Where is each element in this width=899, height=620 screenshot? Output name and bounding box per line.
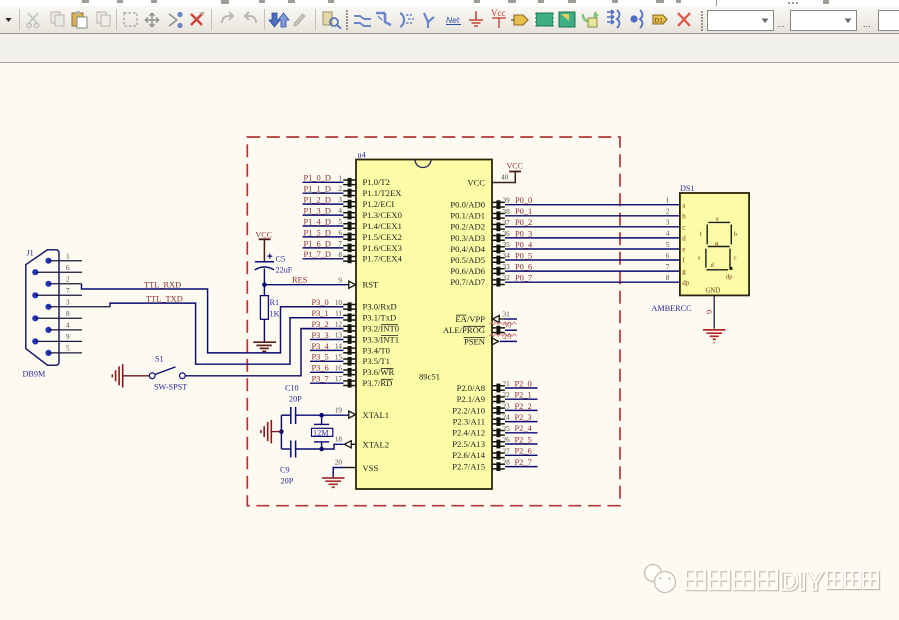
svg-text:P3_4: P3_4 bbox=[312, 342, 330, 351]
svg-text:P1_6_D: P1_6_D bbox=[304, 239, 331, 248]
overline PROG bbox=[463, 325, 485, 327]
svg-text:P1.2/ECI: P1.2/ECI bbox=[363, 199, 395, 209]
wire TTL_RXD from J1 pin2 to U4 P3.0 bbox=[82, 284, 344, 353]
wire net P3_1 stub bbox=[290, 317, 344, 319]
svg-text:2: 2 bbox=[66, 276, 70, 284]
no-ERC squiggle pin30 bbox=[489, 322, 517, 325]
wire C9 left lead bbox=[281, 448, 290, 450]
wire net P3_3 stub bbox=[310, 339, 344, 341]
svg-text:P1.5/CEX2: P1.5/CEX2 bbox=[363, 232, 402, 242]
U4 pin 12 bbox=[343, 324, 355, 333]
svg-text:10: 10 bbox=[335, 299, 343, 307]
wire net P3_5 stub bbox=[310, 360, 344, 362]
svg-text:9: 9 bbox=[338, 277, 342, 285]
svg-text:DS1: DS1 bbox=[680, 184, 695, 193]
svg-text:e: e bbox=[682, 246, 685, 254]
overline EA bbox=[456, 314, 467, 316]
svg-text:b: b bbox=[682, 212, 686, 220]
svg-text:P2.4/A12: P2.4/A12 bbox=[452, 428, 485, 438]
svg-text:3: 3 bbox=[338, 196, 342, 204]
svg-text:37: 37 bbox=[503, 219, 511, 227]
wire net P0_1 to DS1 bbox=[505, 215, 680, 217]
U4 pin 1 bbox=[343, 178, 355, 187]
wire to XTAL1 pin bbox=[322, 414, 349, 416]
svg-text:P0_3: P0_3 bbox=[515, 229, 532, 238]
svg-text:40: 40 bbox=[501, 174, 509, 182]
wire net P0_0 to DS1 bbox=[505, 204, 680, 206]
svg-text:25: 25 bbox=[503, 425, 511, 433]
wire to XTAL2 pin bbox=[322, 444, 344, 449]
watermark logo bbox=[645, 565, 676, 593]
svg-text:P2.1/A9: P2.1/A9 bbox=[457, 394, 485, 404]
svg-text:u4: u4 bbox=[358, 151, 366, 160]
svg-text:9: 9 bbox=[66, 333, 70, 341]
svg-text:P2_0: P2_0 bbox=[515, 379, 532, 388]
wire net P2_2 stub bbox=[505, 409, 538, 411]
svg-text:22uF: 22uF bbox=[276, 266, 293, 275]
display DS1 body bbox=[680, 193, 749, 295]
power ground at switch S1 bbox=[112, 364, 122, 387]
svg-text:9: 9 bbox=[705, 310, 714, 314]
svg-text:19: 19 bbox=[335, 407, 343, 415]
U4 pin 19 XTAL1 bbox=[349, 411, 356, 418]
wire ground to S1 bbox=[123, 375, 150, 377]
svg-text:5: 5 bbox=[338, 218, 342, 226]
resistor R1 1K bbox=[263, 285, 265, 296]
svg-text:P3.1/TxD: P3.1/TxD bbox=[363, 313, 397, 323]
U4 pin 28 bbox=[493, 462, 505, 471]
svg-text:16: 16 bbox=[335, 364, 343, 372]
svg-text:13: 13 bbox=[335, 332, 343, 340]
wire net P3_4 stub bbox=[310, 349, 344, 351]
svg-text:DB9M: DB9M bbox=[23, 370, 46, 379]
wire net P2_4 stub bbox=[505, 432, 538, 434]
junction left cap node bbox=[279, 429, 284, 434]
wire R1 to ground bbox=[263, 319, 265, 342]
svg-text:P1.0/T2: P1.0/T2 bbox=[363, 177, 390, 187]
wire net P0_5 to DS1 bbox=[505, 259, 680, 261]
switch S1 SW-SPST bbox=[149, 367, 185, 379]
svg-text:R1: R1 bbox=[270, 298, 280, 307]
wire net P0_6 to DS1 bbox=[505, 270, 680, 272]
svg-text:P3_0: P3_0 bbox=[312, 298, 329, 307]
wire TTL_TXD from J1 pin3 to U4 P3.1 bbox=[110, 303, 344, 364]
svg-text:P2.7/A15: P2.7/A15 bbox=[452, 462, 485, 472]
svg-text:P3.0/RxD: P3.0/RxD bbox=[363, 302, 397, 312]
svg-text:P2_3: P2_3 bbox=[515, 413, 532, 422]
svg-text:5: 5 bbox=[666, 241, 670, 249]
power ground at crystal bbox=[261, 420, 271, 443]
svg-text:1K: 1K bbox=[270, 310, 280, 319]
svg-text:e: e bbox=[698, 255, 701, 262]
svg-text:8: 8 bbox=[666, 274, 670, 282]
svg-text:P2_5: P2_5 bbox=[515, 435, 532, 444]
svg-text:P2_7: P2_7 bbox=[515, 458, 532, 467]
svg-text:VCC: VCC bbox=[256, 231, 272, 240]
svg-text:2: 2 bbox=[338, 185, 342, 193]
svg-text:5: 5 bbox=[66, 345, 70, 353]
wire net P3_2 stub bbox=[301, 328, 344, 330]
U4 pin 25 bbox=[493, 428, 505, 437]
svg-text:P1.3/CEX0: P1.3/CEX0 bbox=[363, 210, 402, 220]
wire net P2_0 stub bbox=[505, 387, 538, 389]
U4 pin 21 bbox=[493, 384, 505, 393]
DS1 seven-segment digit bbox=[706, 222, 731, 269]
svg-text:P0.6/AD6: P0.6/AD6 bbox=[450, 266, 485, 276]
svg-text:c: c bbox=[734, 255, 737, 262]
wire net P0_3 to DS1 bbox=[505, 237, 680, 239]
svg-text:a: a bbox=[716, 215, 719, 222]
svg-text:23: 23 bbox=[503, 402, 511, 410]
svg-text:P3_6: P3_6 bbox=[312, 364, 329, 373]
no-ERC squiggle pin29 bbox=[489, 334, 517, 337]
svg-text:C9: C9 bbox=[280, 466, 290, 475]
U4 pin 29 PSEN bbox=[492, 338, 499, 345]
U4 pin 13 bbox=[343, 335, 355, 344]
U4 pin 27 bbox=[493, 451, 505, 460]
svg-text:20: 20 bbox=[335, 459, 343, 467]
svg-text:34: 34 bbox=[503, 252, 511, 260]
wire pin40 to VCC symbol bbox=[492, 172, 515, 183]
wire net P1_7_D stub bbox=[303, 258, 344, 260]
U4 pin 16 bbox=[343, 368, 355, 377]
svg-text:1: 1 bbox=[338, 174, 342, 182]
svg-text:P3_1: P3_1 bbox=[312, 309, 329, 318]
svg-text:P2_2: P2_2 bbox=[515, 402, 532, 411]
svg-text:SW-SPST: SW-SPST bbox=[154, 383, 187, 392]
J1 pin 9 bbox=[32, 338, 38, 344]
wire net P2_6 stub bbox=[505, 454, 538, 456]
svg-text:VCC: VCC bbox=[467, 177, 485, 187]
wire VSS to ground bbox=[333, 468, 343, 479]
svg-text:TTL_RXD: TTL_RXD bbox=[144, 280, 181, 289]
svg-text:P0_0: P0_0 bbox=[515, 196, 532, 205]
svg-text:P1_3_D: P1_3_D bbox=[304, 207, 331, 216]
svg-text:P0_1: P0_1 bbox=[515, 207, 532, 216]
svg-text:RST: RST bbox=[363, 280, 380, 290]
wire net P3_6 stub bbox=[310, 371, 344, 373]
wire joining C10 and C9 left plates bbox=[280, 415, 282, 449]
wire net P2_5 stub bbox=[505, 443, 538, 445]
svg-text:4: 4 bbox=[666, 230, 670, 238]
U4 pin 34 bbox=[493, 256, 505, 265]
svg-text:d: d bbox=[682, 235, 686, 243]
earth ground below R1 bbox=[253, 342, 276, 351]
U4 pin 14 bbox=[343, 346, 355, 355]
earth ground below DS1 bbox=[703, 330, 725, 343]
VCC power symbol at pin 40 bbox=[509, 171, 521, 173]
svg-text:dp: dp bbox=[682, 279, 690, 287]
svg-text:P0.1/AD1: P0.1/AD1 bbox=[450, 211, 485, 221]
U4 pin 30 ALE/PROG bbox=[493, 326, 505, 335]
svg-text:4: 4 bbox=[66, 322, 70, 330]
svg-text:P0.7/AD7: P0.7/AD7 bbox=[450, 277, 485, 287]
svg-text:C10: C10 bbox=[285, 384, 299, 393]
svg-text:P2.0/A8: P2.0/A8 bbox=[457, 383, 485, 393]
U4 pin 22 bbox=[493, 395, 505, 404]
svg-text:8: 8 bbox=[338, 251, 342, 259]
svg-text:21: 21 bbox=[503, 380, 511, 388]
overline WR bbox=[381, 367, 394, 369]
svg-text:P1_5_D: P1_5_D bbox=[304, 228, 331, 237]
svg-text:P1_1_D: P1_1_D bbox=[304, 185, 331, 194]
svg-text:RES: RES bbox=[292, 276, 308, 285]
svg-text:P0_4: P0_4 bbox=[515, 240, 533, 249]
svg-text:dp: dp bbox=[726, 273, 733, 280]
U4 pin 15 bbox=[343, 357, 355, 366]
svg-text:14: 14 bbox=[335, 342, 343, 350]
svg-text:3: 3 bbox=[666, 219, 670, 227]
svg-text:P1_7_D: P1_7_D bbox=[304, 250, 331, 259]
svg-text:28: 28 bbox=[503, 459, 511, 467]
svg-text:12: 12 bbox=[335, 321, 343, 329]
junction XTAL2 node bbox=[319, 447, 324, 452]
svg-text:7: 7 bbox=[338, 240, 342, 248]
svg-text:18: 18 bbox=[335, 435, 343, 443]
svg-text:36: 36 bbox=[503, 230, 511, 238]
wire net P1_1_D stub bbox=[303, 192, 344, 194]
svg-text:P0.3/AD3: P0.3/AD3 bbox=[450, 233, 485, 243]
capacitor C9 20P bbox=[290, 441, 292, 458]
svg-text:c: c bbox=[682, 223, 685, 231]
overline RD bbox=[381, 378, 393, 380]
svg-text:P3.5/T1: P3.5/T1 bbox=[363, 356, 390, 366]
U4 pin 5 bbox=[343, 222, 355, 231]
svg-text:AMBERCC: AMBERCC bbox=[652, 304, 693, 313]
svg-text:P1.4/CEX1: P1.4/CEX1 bbox=[363, 221, 402, 231]
J1 pin 3 bbox=[45, 304, 51, 310]
svg-text:7: 7 bbox=[666, 263, 670, 271]
svg-text:4: 4 bbox=[338, 207, 342, 215]
svg-text:39: 39 bbox=[503, 197, 511, 205]
svg-text:P0_2: P0_2 bbox=[515, 218, 532, 227]
svg-text:XTAL2: XTAL2 bbox=[363, 440, 390, 450]
svg-text:P1_2_D: P1_2_D bbox=[304, 196, 331, 205]
svg-text:P3.4/T0: P3.4/T0 bbox=[363, 345, 390, 355]
svg-text:P3_5: P3_5 bbox=[312, 353, 329, 362]
svg-text:P0_5: P0_5 bbox=[515, 251, 532, 260]
wire net P0_7 to DS1 bbox=[505, 281, 680, 283]
U4 pin 33 bbox=[493, 267, 505, 276]
svg-text:8: 8 bbox=[66, 310, 70, 318]
svg-text:S1: S1 bbox=[155, 355, 164, 364]
J1 pin 1 bbox=[45, 258, 51, 264]
svg-text:TTL_TXD: TTL_TXD bbox=[146, 294, 183, 303]
DS1 pin 9 wire to ground bbox=[713, 295, 715, 328]
U4 pin 37 bbox=[493, 222, 505, 231]
earth ground below VSS bbox=[322, 478, 345, 487]
watermark text 电子知识DIY工作室 (embossed) bbox=[685, 565, 879, 597]
wire crystal top stub bbox=[321, 415, 323, 424]
svg-text:22: 22 bbox=[503, 391, 511, 399]
svg-text:P2_4: P2_4 bbox=[515, 424, 533, 433]
svg-text:P2.5/A13: P2.5/A13 bbox=[452, 439, 485, 449]
wire net P0_4 to DS1 bbox=[505, 248, 680, 250]
svg-text:35: 35 bbox=[503, 241, 511, 249]
U4 pin 10 bbox=[343, 302, 355, 311]
svg-text:1: 1 bbox=[66, 253, 70, 261]
svg-text:3: 3 bbox=[66, 299, 70, 307]
svg-text:P1.6/CEX3: P1.6/CEX3 bbox=[363, 243, 402, 253]
svg-text:VCC: VCC bbox=[507, 162, 523, 171]
wire net P1_2_D stub bbox=[303, 203, 344, 205]
U4 pin 4 bbox=[343, 211, 355, 220]
U4 pin 26 bbox=[493, 440, 505, 449]
U4 pin 6 bbox=[343, 233, 355, 242]
wire crystal ground to caps node bbox=[271, 431, 281, 433]
U4 pin 20 VSS bbox=[344, 467, 357, 469]
wire net P1_0_D stub bbox=[303, 181, 344, 183]
svg-text:32: 32 bbox=[503, 274, 511, 282]
wire net P2_1 stub bbox=[505, 398, 538, 400]
wire pin31 stub bbox=[504, 318, 517, 320]
svg-text:g: g bbox=[682, 268, 686, 276]
svg-text:P1_4_D: P1_4_D bbox=[304, 217, 331, 226]
J1 pin 2 bbox=[45, 281, 51, 287]
segment letters bbox=[698, 215, 738, 280]
selection frame dashed red rectangle bbox=[247, 137, 620, 506]
svg-text:P2.2/A10: P2.2/A10 bbox=[452, 405, 485, 415]
wire net P3_0 stub bbox=[281, 306, 344, 308]
J1 pin 5 bbox=[45, 350, 51, 356]
U4 pin 24 bbox=[493, 417, 505, 426]
wire net P1_6_D stub bbox=[303, 247, 344, 249]
J1 pin 4 bbox=[45, 327, 51, 333]
svg-text:31: 31 bbox=[503, 311, 511, 319]
svg-text:P0_7: P0_7 bbox=[515, 274, 532, 283]
svg-text:89c51: 89c51 bbox=[419, 372, 440, 382]
svg-text:6: 6 bbox=[338, 229, 342, 237]
wire net P2_3 stub bbox=[505, 421, 538, 423]
junction XTAL1 node bbox=[319, 413, 324, 418]
svg-text:P0.5/AD5: P0.5/AD5 bbox=[450, 255, 485, 265]
svg-text:15: 15 bbox=[335, 353, 343, 361]
svg-text:2: 2 bbox=[666, 208, 670, 216]
J1 pin 7 bbox=[32, 292, 38, 298]
wire pin29 stub bbox=[500, 340, 517, 342]
svg-text:P0.4/AD4: P0.4/AD4 bbox=[450, 244, 485, 254]
wire net P2_7 stub bbox=[505, 466, 538, 468]
U4 pin 36 bbox=[493, 234, 505, 243]
svg-text:P0.0/AD0: P0.0/AD0 bbox=[450, 200, 485, 210]
svg-text:27: 27 bbox=[503, 447, 511, 455]
U4 pin 2 bbox=[343, 189, 355, 198]
svg-text:VSS: VSS bbox=[363, 463, 379, 473]
capacitor C10 20P bbox=[290, 407, 292, 424]
U4 pin 23 bbox=[493, 406, 505, 415]
U4 pin 35 bbox=[493, 245, 505, 254]
wire RES to U4 RST bbox=[264, 284, 348, 286]
overline PSEN bbox=[464, 337, 486, 339]
svg-text:P2.3/A11: P2.3/A11 bbox=[453, 417, 485, 427]
overline INT0 bbox=[381, 324, 398, 326]
svg-text:P1_0_D: P1_0_D bbox=[304, 174, 331, 183]
overline INT1 bbox=[381, 335, 398, 337]
wire net P3_7 stub bbox=[310, 382, 344, 384]
wire C9 right lead to XTAL2 node bbox=[296, 448, 322, 450]
svg-text:26: 26 bbox=[503, 436, 511, 444]
svg-text:P2.6/A14: P2.6/A14 bbox=[452, 450, 485, 460]
J1 pin 8 bbox=[32, 315, 38, 321]
svg-text:P1.7/CEX4: P1.7/CEX4 bbox=[363, 254, 403, 264]
wire net P1_3_D stub bbox=[303, 214, 344, 216]
svg-text:33: 33 bbox=[503, 263, 511, 271]
wire S1 to U4 P3.2 bbox=[185, 329, 343, 376]
wire C10 left lead bbox=[281, 414, 290, 416]
J1 pin 6 bbox=[32, 269, 38, 275]
U4 pin 7 bbox=[343, 244, 355, 253]
svg-text:P2_1: P2_1 bbox=[515, 391, 532, 400]
mcu U4 89c51 body bbox=[356, 160, 492, 490]
svg-text:1: 1 bbox=[666, 197, 670, 205]
svg-text:C5: C5 bbox=[276, 255, 286, 264]
svg-text:DIY: DIY bbox=[779, 565, 822, 595]
svg-text:6: 6 bbox=[666, 252, 670, 260]
U4 pin 39 bbox=[493, 200, 505, 209]
svg-text:P2_6: P2_6 bbox=[515, 447, 532, 456]
connector J1 DB9M outline bbox=[26, 250, 59, 365]
wire pin30 stub bbox=[505, 329, 517, 331]
svg-text:29: 29 bbox=[503, 332, 511, 341]
wire net P0_2 to DS1 bbox=[505, 226, 680, 228]
svg-text:XTAL1: XTAL1 bbox=[363, 410, 390, 420]
svg-text:P3_3: P3_3 bbox=[312, 331, 329, 340]
U4 pin 31 EA/VPP bbox=[493, 315, 505, 322]
VCC power symbol left bbox=[259, 239, 271, 261]
svg-text:11: 11 bbox=[335, 310, 342, 318]
svg-text:7: 7 bbox=[66, 287, 70, 295]
svg-text:20P: 20P bbox=[289, 395, 302, 404]
svg-text:P1.1/T2EX: P1.1/T2EX bbox=[363, 188, 403, 198]
U4 pin 32 bbox=[493, 278, 505, 287]
svg-text:P3_7: P3_7 bbox=[312, 375, 329, 384]
DS1 dp dot bbox=[729, 267, 732, 270]
svg-text:24: 24 bbox=[503, 414, 511, 422]
wire net P1_5_D stub bbox=[303, 236, 344, 238]
wire C10 right lead to XTAL1 node bbox=[296, 414, 322, 416]
U4 pin 17 bbox=[343, 379, 355, 388]
U4 pin 8 bbox=[343, 254, 355, 263]
junction RES node bbox=[262, 282, 267, 287]
svg-text:17: 17 bbox=[335, 375, 343, 383]
svg-text:12M: 12M bbox=[313, 429, 329, 438]
svg-text:38: 38 bbox=[503, 208, 511, 216]
wire C5 to RES node bbox=[263, 269, 265, 285]
U4 pin 9 RST bbox=[349, 281, 356, 288]
svg-text:P0.2/AD2: P0.2/AD2 bbox=[450, 222, 485, 232]
U4 pin 11 bbox=[343, 313, 355, 322]
crystal Y1 12M bbox=[314, 423, 329, 425]
svg-text:GND: GND bbox=[706, 288, 721, 295]
svg-text:6: 6 bbox=[66, 264, 70, 272]
wire crystal bottom stub bbox=[321, 442, 323, 449]
svg-text:20P: 20P bbox=[281, 477, 294, 486]
wire net P1_4_D stub bbox=[303, 225, 344, 227]
U4 pin 38 bbox=[493, 211, 505, 220]
capacitor C5 22uF bbox=[255, 261, 274, 263]
svg-text:P3_2: P3_2 bbox=[312, 320, 329, 329]
svg-text:J1: J1 bbox=[27, 249, 34, 258]
svg-text:P0_6: P0_6 bbox=[515, 263, 532, 272]
U4 pin 3 bbox=[343, 200, 355, 209]
U4 pin 18 XTAL2 bbox=[345, 441, 357, 448]
